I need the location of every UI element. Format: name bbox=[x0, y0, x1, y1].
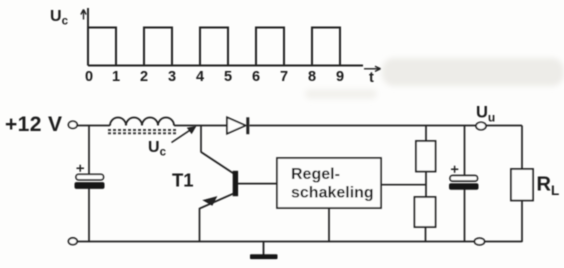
inductor L1 coil bbox=[110, 118, 174, 126]
transistor T1 emitter line bbox=[200, 193, 235, 208]
capacitor C1 top plate bbox=[76, 174, 104, 180]
svg-text:+12 V: +12 V bbox=[5, 113, 62, 136]
diode D1 bbox=[227, 117, 246, 133]
ground stub bbox=[263, 242, 265, 255]
capacitor C1 plus sign bbox=[77, 165, 85, 172]
ground bar bbox=[250, 254, 278, 259]
wire input branch down bbox=[88, 126, 90, 175]
wire divider top bbox=[425, 126, 427, 142]
wire RL to bottom rail bbox=[521, 201, 523, 243]
transistor T1 collector line bbox=[201, 152, 234, 174]
svg-text:0: 0 bbox=[85, 69, 93, 85]
arrow from Uc to node bbox=[172, 130, 192, 143]
svg-text:8: 8 bbox=[308, 69, 316, 85]
svg-text:t: t bbox=[369, 70, 374, 86]
control box Regelschakeling bbox=[277, 158, 381, 208]
transistor T1 base bar bbox=[233, 171, 238, 196]
svg-text:4: 4 bbox=[196, 69, 204, 85]
resistor R2 lower divider bbox=[415, 197, 436, 227]
output terminal circle Uu bbox=[476, 122, 486, 130]
wire right branch to RL bbox=[521, 126, 523, 170]
waveform tick numbers 0-9 bbox=[85, 69, 344, 85]
waveform t axis arrow bbox=[364, 66, 381, 71]
wire divider bottom bbox=[425, 227, 427, 242]
svg-text:Uu: Uu bbox=[476, 104, 495, 125]
svg-text:Regel-: Regel- bbox=[291, 166, 340, 183]
wire top rail left (terminal to coil) bbox=[77, 125, 110, 127]
wire top rail coil to diode bbox=[174, 125, 227, 127]
wire top rail diode to right end bbox=[250, 125, 523, 127]
capacitor C1 bottom plate bbox=[75, 183, 104, 189]
capacitor C2 plus sign bbox=[451, 166, 458, 173]
wire C1 to bottom rail bbox=[88, 188, 90, 241]
svg-text:2: 2 bbox=[140, 69, 148, 85]
svg-text:1: 1 bbox=[112, 69, 120, 85]
wire base to control box bbox=[238, 183, 277, 185]
capacitor C2 bottom plate bbox=[450, 184, 479, 190]
svg-text:RL: RL bbox=[537, 174, 560, 199]
wire box right to divider tap bbox=[381, 184, 426, 186]
svg-text:Uc: Uc bbox=[148, 139, 167, 159]
svg-text:Uc: Uc bbox=[50, 8, 69, 28]
bottom left terminal circle bbox=[68, 238, 77, 245]
svg-text:9: 9 bbox=[336, 69, 344, 85]
inductor core dashed lines bbox=[108, 129, 176, 131]
resistor R1 upper divider bbox=[416, 141, 436, 172]
wire between divider resistors bbox=[425, 172, 427, 198]
svg-text:7: 7 bbox=[280, 69, 288, 85]
svg-text:5: 5 bbox=[224, 69, 232, 85]
waveform time axis bbox=[88, 65, 363, 67]
wire collector node down bbox=[200, 126, 202, 153]
waveform y-axis Uc bbox=[87, 8, 89, 66]
wire C2 to bottom rail bbox=[464, 189, 466, 241]
svg-text:schakeling: schakeling bbox=[291, 185, 374, 202]
svg-text:6: 6 bbox=[252, 69, 260, 85]
wire box bottom to rail bbox=[328, 208, 330, 242]
waveform Uc axis up-arrow bbox=[81, 10, 86, 20]
bottom right terminal circle bbox=[475, 238, 485, 245]
waveform square pulses bbox=[88, 28, 340, 66]
resistor RL bbox=[511, 169, 533, 201]
transistor T1 emitter arrow bbox=[204, 197, 217, 205]
svg-text:3: 3 bbox=[168, 69, 176, 85]
wire emitter to bottom rail bbox=[199, 208, 201, 242]
bottom rail bbox=[77, 241, 522, 243]
input terminal circle bbox=[68, 121, 77, 128]
wire output cap branch down bbox=[464, 126, 466, 176]
svg-text:T1: T1 bbox=[172, 170, 194, 191]
capacitor C2 top plate bbox=[450, 176, 478, 182]
